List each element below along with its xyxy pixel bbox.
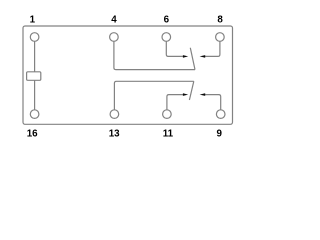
pin 9 terminal circle <box>216 110 225 119</box>
svg-text:9: 9 <box>216 129 222 140</box>
coil box <box>27 72 41 81</box>
movable blade top pole <box>190 48 195 70</box>
svg-text:1: 1 <box>30 15 36 26</box>
arrow contact pin8 <box>200 55 206 58</box>
pin 6 terminal circle <box>162 33 171 42</box>
movable blade bottom pole <box>189 81 193 100</box>
wire pin6 to NO contact top <box>166 41 183 56</box>
pin 16 terminal circle <box>30 110 39 119</box>
wire pin11 to contact bottom <box>167 95 184 110</box>
arrow contact pin9 <box>200 93 206 96</box>
pin 1 terminal circle <box>30 33 39 42</box>
pin 8 terminal circle <box>216 33 225 42</box>
svg-text:6: 6 <box>164 15 170 26</box>
svg-text:11: 11 <box>163 129 174 140</box>
wire pin13 common (bottom pole) <box>114 81 193 109</box>
wire pin1 to coil <box>34 41 36 72</box>
wire coil to pin16 <box>34 80 36 110</box>
arrow contact pin6 <box>183 55 188 58</box>
pin 4 terminal circle <box>110 33 119 42</box>
svg-text:13: 13 <box>109 129 120 140</box>
svg-text:8: 8 <box>217 15 223 26</box>
wire pin9 to contact bottom <box>204 95 220 111</box>
wire pin4 common (top pole) <box>114 41 195 69</box>
svg-text:4: 4 <box>111 15 117 26</box>
relay body outline <box>23 26 233 124</box>
arrow contact pin11 <box>183 93 188 96</box>
svg-text:16: 16 <box>27 129 38 140</box>
pin 13 terminal circle <box>110 110 119 119</box>
wire pin8 to contact top <box>204 41 220 56</box>
pin 11 terminal circle <box>163 110 172 119</box>
